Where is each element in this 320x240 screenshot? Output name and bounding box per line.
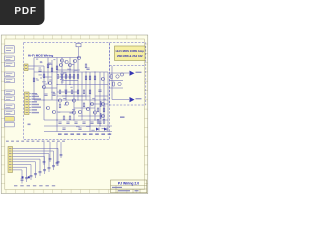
wire [110, 80, 123, 82]
transistor Q18 [101, 102, 104, 105]
wire [69, 58, 71, 85]
output arrow OUT2 [130, 97, 135, 102]
capacitor C21 [43, 161, 46, 163]
capacitor C8 [74, 121, 77, 123]
wire [103, 72, 105, 120]
resistor R11 [94, 76, 96, 80]
mosfet gate bar [100, 113, 102, 119]
svg-text:PJ Wiring 2.0: PJ Wiring 2.0 [118, 181, 139, 185]
resistor R25 [33, 78, 35, 82]
transistor Q16 [52, 110, 55, 113]
wire [78, 115, 104, 117]
title block [111, 180, 147, 193]
wire [49, 142, 51, 162]
wire [28, 65, 44, 67]
svg-text:Hi-Fi MOS 100W Amp: Hi-Fi MOS 100W Amp [116, 49, 145, 53]
resistor R9 [85, 76, 87, 80]
wire [57, 111, 74, 113]
transistor Q1 [60, 59, 63, 62]
svg-text:PDF: PDF [14, 6, 36, 17]
svg-text:2SK1058 & 2SJ 162: 2SK1058 & 2SJ 162 [117, 54, 143, 58]
net name labels [58, 134, 111, 135]
wire [44, 87, 57, 89]
wire [33, 58, 35, 101]
output transistor Q30 [116, 75, 119, 78]
title note box [115, 46, 146, 61]
resistor R14 [71, 90, 73, 94]
wire [57, 95, 90, 97]
resistor R28 [59, 104, 61, 108]
connector J2 [25, 92, 30, 115]
transistor Q15 [46, 106, 49, 109]
connector J1 [24, 64, 28, 71]
capacitor C24 [60, 154, 63, 156]
transistor Q14 [93, 111, 96, 114]
capacitor C12 [62, 127, 65, 129]
wire [65, 72, 67, 100]
capacitor C6 [58, 121, 61, 123]
resistor R8 [51, 68, 53, 72]
capacitor C22 [49, 158, 52, 160]
transistor Q4 [77, 56, 80, 59]
transistor Q6 [48, 81, 51, 84]
resistor R17 [89, 90, 91, 94]
harness wires [13, 148, 59, 183]
resistor R24 [43, 74, 45, 78]
wire V- rail [44, 125, 112, 127]
transistor Q11 [86, 107, 89, 110]
capacitor C9 [57, 161, 60, 163]
wire rail [44, 119, 108, 121]
wire [94, 72, 96, 120]
schematic page background [1, 35, 148, 194]
wire [89, 72, 91, 132]
capacitor C5 [98, 89, 101, 91]
wire [107, 72, 109, 132]
transistor Q8 [65, 102, 68, 105]
diode D2 [104, 128, 107, 131]
resistor R27 [85, 64, 87, 68]
pin legend table [5, 46, 14, 115]
wire [47, 58, 49, 85]
wire [51, 60, 53, 100]
capacitor C9 [82, 121, 85, 123]
resistor R16 [83, 90, 85, 94]
wire junctions [43, 71, 100, 126]
wire [74, 107, 95, 109]
wire [56, 142, 58, 166]
component value labels [35, 59, 106, 131]
resistor R2 [61, 75, 63, 79]
capacitor C11 [98, 121, 101, 123]
resistor R1 [57, 75, 59, 79]
resistor R13 [65, 90, 67, 94]
resistor R26 [56, 66, 58, 70]
capacitor C23 [56, 162, 59, 164]
wire [57, 91, 78, 93]
resistor R20 [97, 120, 99, 124]
transistor Q9 [72, 99, 75, 102]
resistor R30 [111, 75, 113, 79]
resistor R22 [63, 116, 65, 120]
capacitor C14 [34, 173, 37, 175]
connector J3 [8, 147, 13, 173]
wire rail [57, 84, 108, 86]
connector J2 pin labels [29, 93, 41, 113]
diode D1 [96, 128, 99, 131]
mosfet gate bar [100, 101, 102, 107]
resistor R21 [103, 120, 105, 124]
wire [73, 60, 75, 120]
wire ground rail [44, 131, 112, 133]
wire [99, 72, 101, 126]
capacitor C10 [52, 165, 55, 167]
capacitor C15 [30, 175, 33, 177]
capacitor C13 [78, 127, 81, 129]
capacitor C11 [48, 167, 51, 169]
wire [95, 95, 108, 97]
wire [28, 68, 34, 70]
transistor Q20 [59, 63, 62, 66]
resistor R12 [59, 90, 61, 94]
transistor Q19 [101, 114, 104, 117]
transistor Q10 [78, 110, 81, 113]
wire [61, 58, 63, 85]
inductor L1 [120, 73, 123, 76]
resistor R5 [73, 75, 75, 79]
wire [62, 80, 78, 82]
wire [56, 58, 58, 132]
speaker impedance label [120, 117, 125, 118]
wire [44, 76, 52, 78]
resistor R3 [65, 75, 67, 79]
transistor Q3 [73, 59, 76, 62]
capacitor C12 [43, 169, 46, 171]
transistor Q5 [42, 85, 45, 88]
resistor R19 [103, 108, 105, 112]
wire [111, 66, 113, 100]
resistor R18 [97, 108, 99, 112]
wire [62, 95, 86, 97]
capacitor value labels [14, 185, 55, 186]
PDF badge [0, 0, 45, 25]
wire [77, 58, 79, 101]
capacitor C13 [39, 171, 42, 173]
wire [60, 142, 62, 158]
transistor Q7 [58, 99, 61, 102]
capacitor C17 [21, 178, 24, 180]
wire [112, 99, 129, 101]
wire rail [34, 71, 108, 73]
transistor Q13 [72, 111, 75, 114]
grid reference labels [6, 141, 65, 142]
wire [57, 69, 80, 71]
wire [81, 72, 83, 120]
resistor R15 [77, 90, 79, 94]
wire V+ rail [34, 57, 81, 59]
note region separator [110, 64, 146, 66]
capacitor C16 [25, 177, 28, 179]
output region outline [110, 43, 146, 106]
power entry terminal [76, 43, 81, 46]
transistor Q12 [90, 102, 93, 105]
resistor R29 [83, 103, 85, 107]
resistor R31 [113, 82, 115, 86]
resistor R23 [69, 116, 71, 120]
capacitor C2 [44, 93, 47, 95]
capacitor C4 [86, 67, 89, 69]
wire [85, 72, 87, 100]
resistor R10 [89, 76, 91, 80]
transistor Q21 [68, 63, 71, 66]
output arrow OUT1 [130, 71, 135, 76]
wire [110, 87, 123, 89]
wire [43, 142, 45, 165]
wire rail [34, 99, 108, 101]
wire [109, 72, 129, 74]
resistor R4 [69, 75, 71, 79]
polarity marks [22, 176, 24, 178]
transistor Q2 [65, 60, 68, 63]
capacitor C3 [52, 93, 55, 95]
output transistor Q31 [118, 82, 121, 85]
legend highlight cell [5, 117, 14, 122]
capacitor C7 [66, 121, 69, 123]
capacitor C10 [90, 121, 93, 123]
svg-text:Hi-Fi MOS Wiring: Hi-Fi MOS Wiring [28, 53, 53, 57]
wire [57, 76, 74, 78]
transistor Q17 [101, 77, 104, 80]
wire [43, 66, 45, 120]
main circuit region outline [24, 43, 110, 140]
wire [90, 103, 108, 105]
capacitor C1 [38, 69, 41, 71]
resistor R6 [77, 75, 79, 79]
grid reference 4 [28, 124, 31, 126]
resistor R7 [47, 64, 49, 68]
